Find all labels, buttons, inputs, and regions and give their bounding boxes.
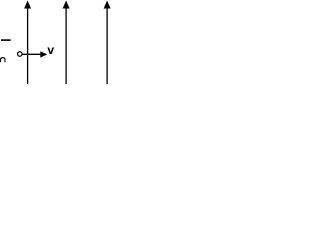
arrowhead of field line 3 (104, 1, 111, 9)
arrowhead of field line 1 (24, 1, 31, 9)
arrowhead of field line 2 (63, 1, 70, 9)
glyph n (left margin, partially cropped) (1, 58, 6, 63)
dash label (left margin) (1, 39, 11, 41)
wire: field line 3 (vertical) (106, 6, 108, 84)
wire: field line 2 (vertical) (65, 6, 67, 84)
wire: field line 1 (vertical) (27, 6, 29, 84)
arrowhead of velocity arrow (40, 51, 47, 57)
svg-text:v: v (47, 43, 54, 57)
wire: velocity arrow shaft (22, 53, 42, 55)
node: charged particle (small circle) (18, 52, 23, 57)
